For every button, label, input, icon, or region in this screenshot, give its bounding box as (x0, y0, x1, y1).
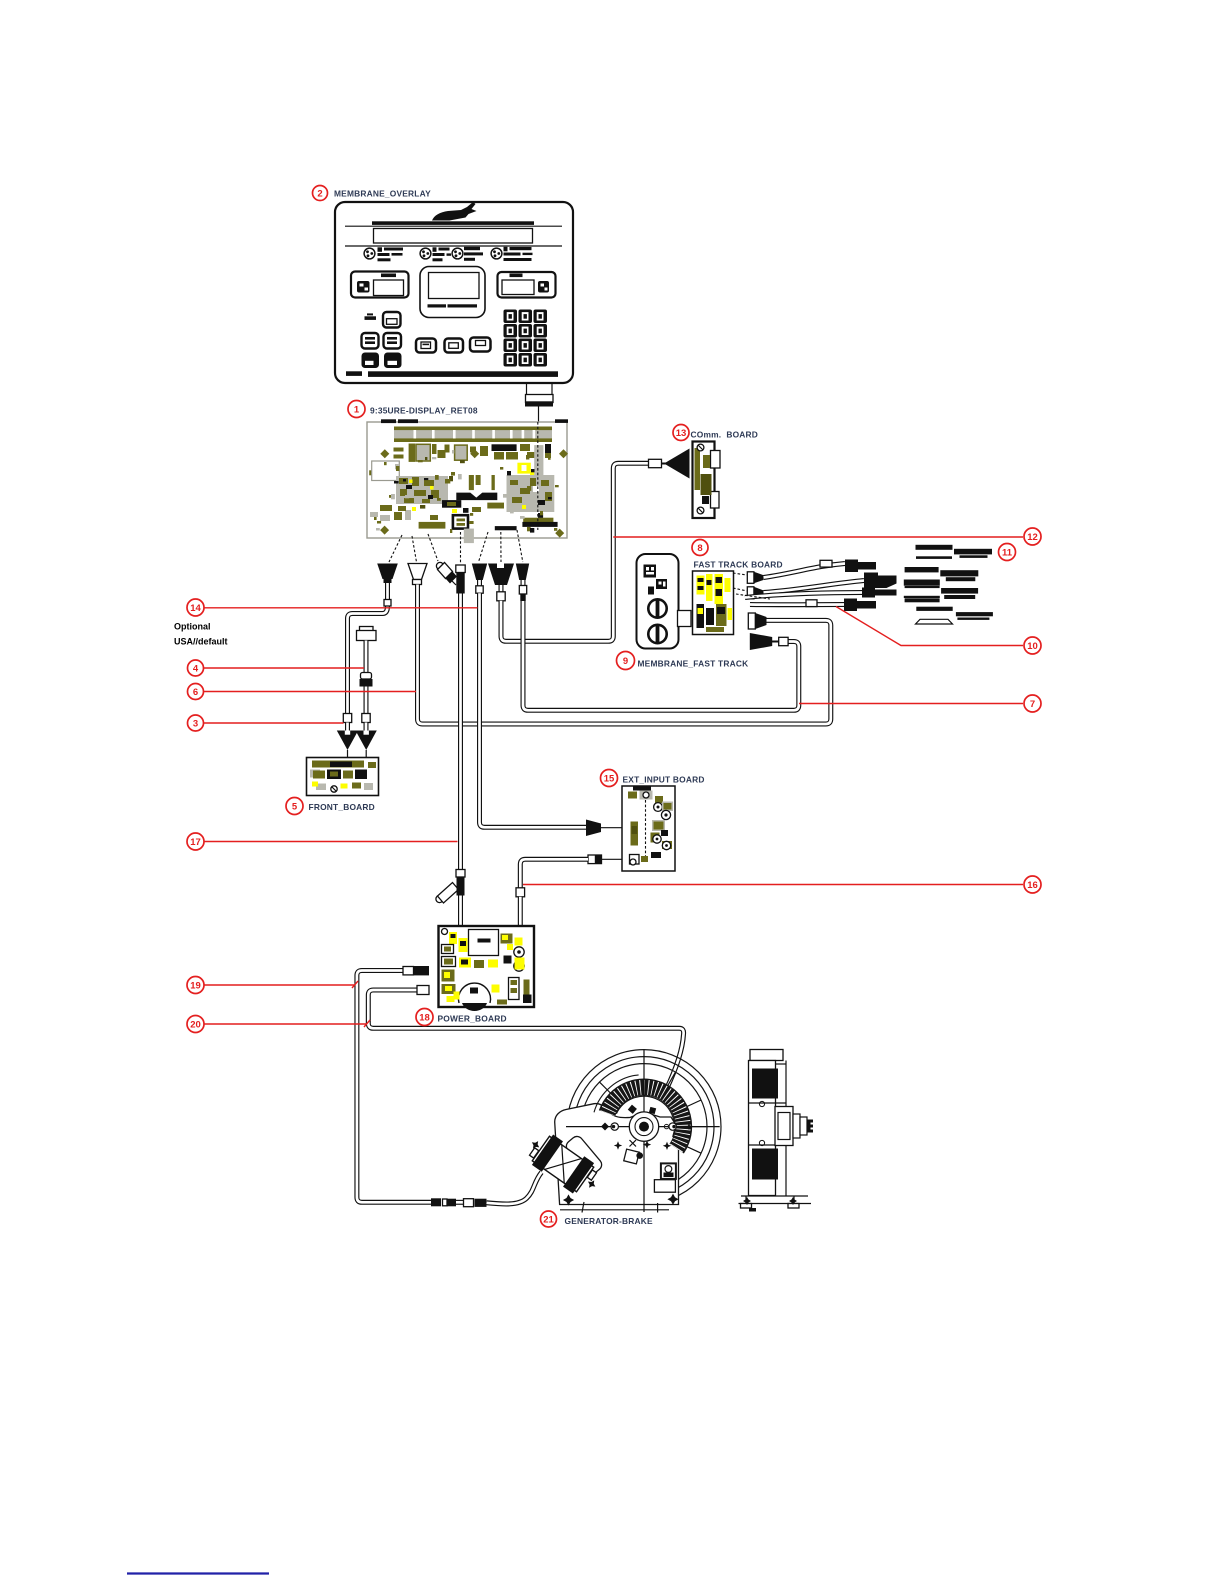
svg-text:2: 2 (317, 189, 322, 200)
svg-text:13: 13 (676, 428, 687, 439)
svg-text:17: 17 (190, 837, 201, 848)
svg-text:EXT_INPUT BOARD: EXT_INPUT BOARD (623, 775, 705, 785)
svg-text:GENERATOR-BRAKE: GENERATOR-BRAKE (565, 1216, 654, 1226)
svg-text:18: 18 (419, 1013, 430, 1024)
svg-text:9:35URE-DISPLAY_RET08: 9:35URE-DISPLAY_RET08 (370, 406, 478, 416)
svg-text:3: 3 (193, 719, 198, 730)
svg-text:COmm. BOARD: COmm. BOARD (691, 430, 759, 440)
svg-text:12: 12 (1027, 532, 1038, 543)
svg-text:6: 6 (193, 687, 198, 698)
svg-text:9: 9 (623, 656, 628, 667)
svg-text:14: 14 (190, 603, 201, 614)
svg-text:4: 4 (193, 664, 199, 675)
svg-text:MEMBRANE_OVERLAY: MEMBRANE_OVERLAY (334, 189, 431, 199)
svg-text:1: 1 (354, 405, 360, 416)
svg-text:FAST TRACK BOARD: FAST TRACK BOARD (694, 560, 783, 570)
svg-text:19: 19 (190, 981, 201, 992)
svg-text:7: 7 (1030, 699, 1035, 710)
svg-text:POWER_BOARD: POWER_BOARD (438, 1014, 507, 1024)
svg-text:USA//default: USA//default (174, 637, 228, 647)
svg-text:Optional: Optional (174, 622, 211, 632)
svg-text:10: 10 (1027, 641, 1038, 652)
svg-text:15: 15 (604, 774, 615, 785)
svg-text:FRONT_BOARD: FRONT_BOARD (309, 802, 375, 812)
svg-text:16: 16 (1027, 880, 1038, 891)
svg-text:MEMBRANE_FAST TRACK: MEMBRANE_FAST TRACK (638, 659, 749, 669)
svg-text:5: 5 (292, 802, 298, 813)
svg-text:8: 8 (697, 543, 702, 554)
svg-text:11: 11 (1002, 548, 1013, 559)
svg-text:20: 20 (190, 1020, 201, 1031)
svg-text:21: 21 (543, 1215, 554, 1226)
